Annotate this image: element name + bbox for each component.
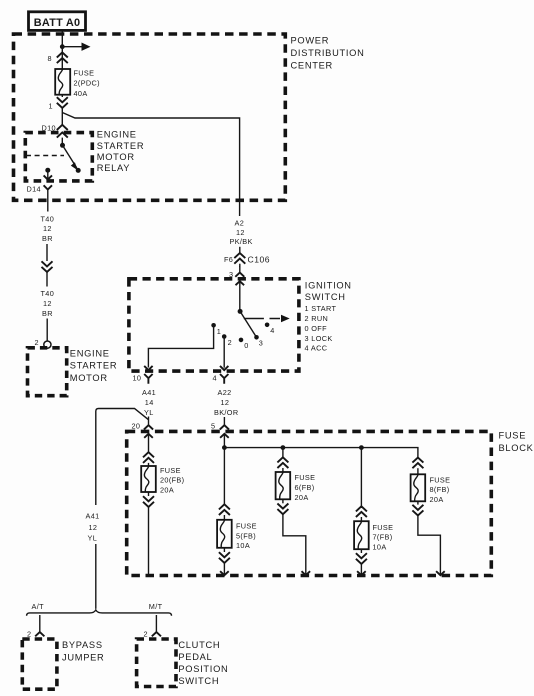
svg-text:BLOCK: BLOCK — [499, 443, 534, 453]
transmission option brace A/T M/T — [27, 602, 172, 616]
ignition pin 10 exit — [133, 366, 153, 384]
wire label A22 12 BK/OR — [214, 388, 238, 417]
svg-text:JUMPER: JUMPER — [62, 653, 104, 663]
engine starter motor relay box — [25, 130, 144, 181]
wire bus to fuse 5 — [223, 448, 225, 505]
svg-text:SWITCH: SWITCH — [178, 676, 219, 686]
node ignition feed junction — [222, 445, 227, 450]
svg-text:5: 5 — [211, 422, 215, 431]
svg-text:A41: A41 — [142, 388, 156, 397]
fuse block box — [127, 431, 534, 576]
wire A2 segment to C106 — [239, 247, 241, 253]
svg-text:2: 2 — [35, 338, 39, 347]
svg-text:4: 4 — [213, 374, 217, 383]
connector above fuse 6 (double chevron) — [277, 457, 288, 468]
wire branch A41 to interlock circuits — [96, 409, 149, 506]
node bus junction fuse 6 — [281, 445, 286, 450]
svg-text:SWITCH: SWITCH — [305, 292, 346, 302]
fuse F6 (FB) 20A — [276, 468, 316, 502]
wire BATT A0 to junction — [61, 31, 63, 47]
bypass jumper box — [22, 639, 104, 689]
svg-text:2(PDC): 2(PDC) — [74, 79, 100, 88]
svg-text:12: 12 — [43, 224, 52, 233]
clutch pedal position switch pin 2 — [144, 630, 162, 639]
fuse block pin 5 entry — [211, 417, 229, 448]
svg-text:BYPASS: BYPASS — [62, 640, 103, 650]
wire fuse 8 output with jog and exit arrow — [418, 516, 445, 576]
svg-text:8(FB): 8(FB) — [430, 485, 450, 494]
svg-text:12: 12 — [43, 299, 52, 308]
wire fuse 2 to node 1 — [61, 95, 63, 97]
svg-text:10: 10 — [133, 374, 142, 383]
svg-text:20A: 20A — [160, 486, 174, 495]
ignition rotation dashed arrow — [244, 315, 290, 323]
svg-text:BATT A0: BATT A0 — [34, 17, 81, 29]
connector below fuse 20 (double chevron) — [143, 492, 154, 507]
fuse F5 (FB) 10A — [217, 515, 257, 550]
fuse F7 (FB) 10A — [354, 517, 393, 551]
svg-text:14: 14 — [145, 398, 154, 407]
svg-text:FUSE: FUSE — [295, 473, 316, 482]
svg-text:MOTOR: MOTOR — [97, 152, 135, 162]
starter motor terminal ring pin 2 — [35, 338, 52, 348]
ignition switch pin 3 entry — [229, 266, 244, 311]
svg-text:STARTER: STARTER — [70, 361, 117, 371]
relay movable contact arm with arrow — [63, 145, 78, 170]
switch position contact 3 LOCK — [254, 335, 263, 348]
svg-text:0: 0 — [244, 341, 248, 350]
wire contact 1 to pin 10 — [148, 325, 213, 367]
engine starter motor box — [28, 348, 118, 396]
wire bus to fuse 7 — [360, 448, 362, 507]
wire A/T branch — [39, 615, 41, 632]
svg-text:4 ACC: 4 ACC — [305, 344, 328, 353]
svg-text:A22: A22 — [218, 388, 232, 397]
ignition pin 4 exit — [213, 366, 229, 384]
switch position contact 2 RUN — [222, 334, 232, 347]
svg-text:MOTOR: MOTOR — [70, 373, 108, 383]
wire fuse bus — [224, 448, 418, 458]
svg-text:FUSE: FUSE — [236, 522, 257, 531]
wire fuse 20 output to bottom of block — [148, 507, 150, 575]
node junction at battery feed — [60, 44, 65, 49]
fuse F20 (FB) 20A — [141, 463, 184, 495]
connector C106 pin F6 (double chevron) — [224, 253, 270, 265]
wire branch arrow to other circuits — [62, 43, 90, 51]
svg-text:FUSE: FUSE — [74, 68, 95, 77]
svg-text:POWER: POWER — [291, 36, 330, 46]
svg-text:C106: C106 — [248, 255, 271, 265]
svg-text:YL: YL — [88, 533, 98, 542]
connector 1 (in-line, double chevron) — [49, 97, 68, 110]
svg-text:FUSE: FUSE — [160, 466, 181, 475]
svg-text:ENGINE: ENGINE — [70, 348, 110, 358]
fuse block pin 20 entry — [132, 417, 154, 453]
bypass jumper pin 2 — [27, 630, 44, 639]
connector above fuse 8 (double chevron) — [412, 458, 423, 469]
svg-text:A2: A2 — [235, 218, 245, 227]
connector below fuse 6 (double chevron) — [277, 499, 288, 514]
switch position contact 0 OFF — [239, 338, 249, 350]
svg-text:FUSE: FUSE — [373, 523, 394, 532]
fuse F8 (FB) 20A — [411, 468, 451, 504]
wire junction to fuse 2 — [61, 47, 63, 69]
svg-text:T40: T40 — [41, 214, 55, 223]
switch position contact 1 START — [211, 323, 221, 336]
switch position contact 4 ACC — [265, 323, 275, 336]
svg-text:12: 12 — [89, 523, 98, 532]
wire T40 segment — [46, 244, 48, 261]
wire relay pin D10 to contact — [61, 138, 63, 146]
svg-text:12: 12 — [236, 228, 245, 237]
ignition switch wiper arm to LOCK — [240, 311, 256, 337]
svg-text:RELAY: RELAY — [97, 163, 130, 173]
wire label A41 12 YL — [86, 512, 100, 543]
svg-text:F6: F6 — [224, 255, 233, 264]
wire relay output to D14 exit arrow — [44, 170, 52, 179]
connector above fuse 7 (double chevron) — [356, 506, 367, 517]
svg-text:40A: 40A — [74, 89, 88, 98]
svg-text:STARTER: STARTER — [97, 141, 144, 151]
svg-text:10A: 10A — [236, 541, 250, 550]
svg-text:1 START: 1 START — [305, 304, 337, 313]
wire C106 to ignition switch pin 3 — [239, 264, 241, 267]
svg-text:PK/BK: PK/BK — [230, 237, 253, 246]
svg-text:3 LOCK: 3 LOCK — [305, 334, 333, 343]
connector in-line on T40 (double chevron) — [42, 261, 53, 272]
wire branch to ignition switch feed — [62, 113, 239, 217]
connector below fuse 8 (double chevron) — [412, 501, 423, 515]
power distribution center box — [14, 34, 365, 200]
wire label A2 12 PK/BK — [230, 218, 253, 246]
svg-text:1: 1 — [217, 327, 221, 336]
svg-text:DISTRIBUTION: DISTRIBUTION — [291, 48, 365, 58]
svg-text:5(FB): 5(FB) — [236, 531, 256, 540]
svg-text:20A: 20A — [295, 493, 309, 502]
clutch pedal position switch box — [137, 639, 229, 687]
wire label T40 12 BR (lower) — [41, 289, 55, 318]
connector D10 (relay pin, double chevron) — [42, 123, 68, 137]
ignition switch rotor pivot — [238, 309, 243, 314]
svg-text:20(FB): 20(FB) — [160, 476, 184, 485]
svg-text:POSITION: POSITION — [178, 664, 228, 674]
wire label T40 12 BR (upper) — [41, 214, 55, 243]
svg-text:8: 8 — [48, 54, 52, 63]
svg-text:4: 4 — [270, 326, 274, 335]
svg-text:2 RUN: 2 RUN — [305, 314, 329, 323]
relay output contact — [45, 168, 50, 173]
wire M/T branch — [155, 615, 157, 632]
svg-text:CLUTCH: CLUTCH — [178, 640, 220, 650]
connector D14 (half chevron below relay) — [27, 184, 53, 211]
svg-text:3: 3 — [259, 339, 263, 348]
svg-text:A/T: A/T — [32, 602, 45, 611]
fuse F2 (PDC) 40A — [55, 68, 100, 98]
wire T40 segment 2 — [46, 272, 48, 287]
svg-text:20: 20 — [132, 422, 141, 431]
svg-text:IGNITION: IGNITION — [305, 280, 352, 290]
wire node 1 down to relay D10 — [61, 108, 63, 125]
svg-text:BR: BR — [42, 309, 53, 318]
relay contact (normally open) — [76, 168, 81, 173]
connector above fuse 20 (double chevron) — [143, 452, 154, 463]
relay coil actuation dashed line — [26, 155, 64, 157]
svg-text:CENTER: CENTER — [291, 60, 333, 70]
relay fixed contact (common) — [60, 143, 65, 148]
svg-text:12: 12 — [221, 398, 230, 407]
svg-text:M/T: M/T — [149, 602, 163, 611]
connector below fuse 5 and exit arrow — [219, 548, 230, 575]
wire T40 to starter motor — [46, 319, 48, 341]
connector below fuse 7 and exit arrow — [356, 549, 367, 575]
svg-text:PEDAL: PEDAL — [178, 652, 212, 662]
svg-text:6(FB): 6(FB) — [295, 483, 315, 492]
svg-text:D14: D14 — [27, 184, 41, 193]
wire bus to fuse 6 — [282, 448, 284, 458]
svg-text:T40: T40 — [41, 289, 55, 298]
svg-text:2: 2 — [144, 630, 148, 639]
node bus junction fuse 7 — [359, 445, 364, 450]
connector above fuse 5 (double chevron) — [219, 504, 230, 515]
battery feed BATT A0 — [29, 12, 86, 31]
wire contact 2 to pin 4 — [223, 337, 225, 368]
wire label A41 14 YL — [142, 388, 156, 417]
svg-text:YL: YL — [144, 408, 154, 417]
svg-text:A41: A41 — [86, 512, 100, 521]
svg-text:1: 1 — [49, 102, 53, 111]
svg-text:2: 2 — [228, 338, 232, 347]
svg-text:FUSE: FUSE — [499, 431, 527, 441]
svg-text:20A: 20A — [430, 495, 444, 504]
connector 8 (in-line, double chevron) — [48, 52, 68, 63]
svg-text:ENGINE: ENGINE — [97, 130, 137, 140]
svg-text:BK/OR: BK/OR — [214, 408, 238, 417]
svg-text:FUSE: FUSE — [430, 475, 451, 484]
svg-text:BR: BR — [42, 234, 53, 243]
svg-text:0 OFF: 0 OFF — [305, 324, 328, 333]
wire A41 lower segment — [95, 544, 97, 609]
svg-text:7(FB): 7(FB) — [373, 533, 393, 542]
svg-text:10A: 10A — [373, 542, 387, 551]
wire fuse 6 output with jog and exit arrow — [283, 514, 310, 575]
ignition switch box — [129, 279, 352, 371]
